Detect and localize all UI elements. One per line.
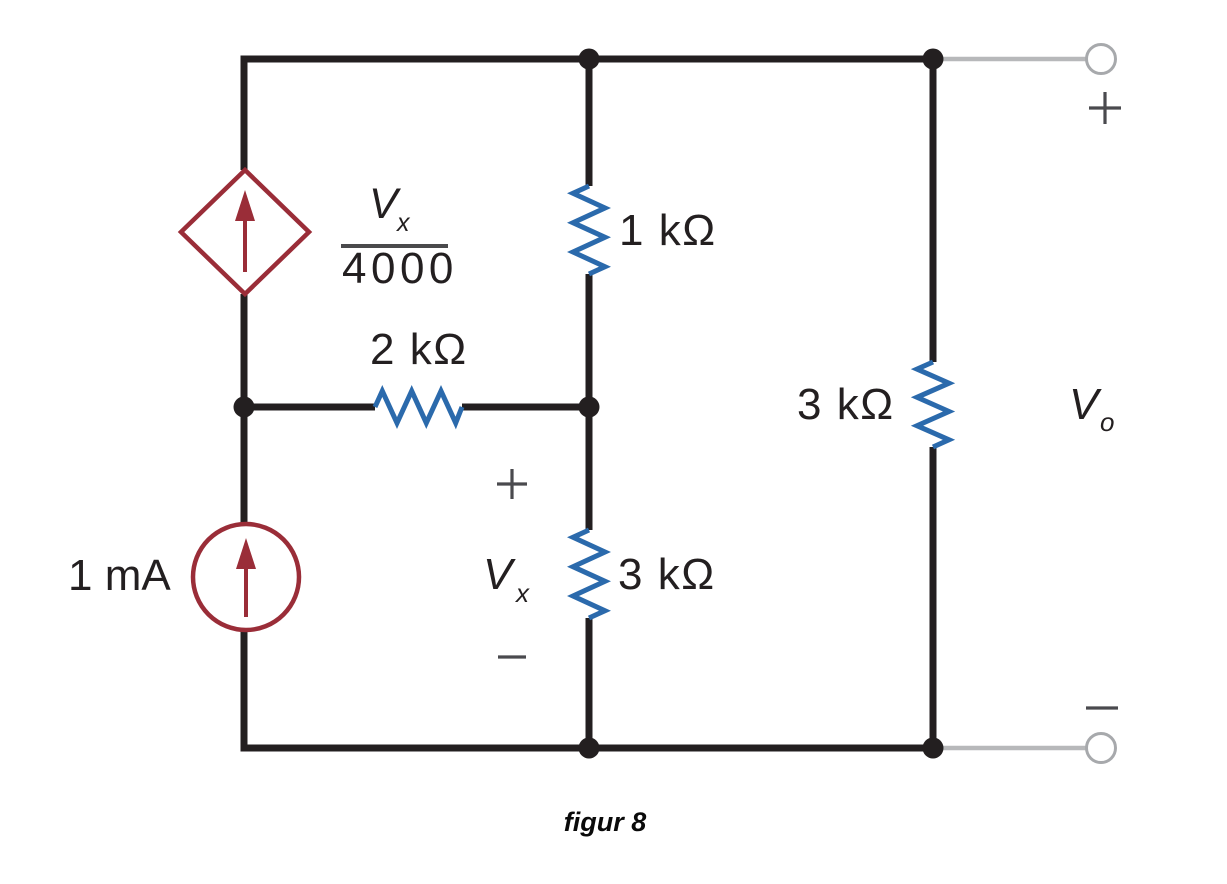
plus sign of Vx polarity xyxy=(497,469,527,499)
resistor 3 kOhm middle zigzag xyxy=(573,530,605,618)
minus sign of output polarity xyxy=(1086,706,1118,709)
resistor 2 kOhm horizontal zigzag xyxy=(375,391,462,423)
junction left middle node xyxy=(234,397,255,418)
svg-text:V: V xyxy=(483,550,516,599)
svg-text:x: x xyxy=(396,209,411,237)
dependent current source Vx/4000 diamond xyxy=(181,170,309,294)
svg-text:2 kΩ: 2 kΩ xyxy=(370,325,468,374)
wire gray lead to bottom output terminal xyxy=(937,746,1086,751)
wire gray lead to top output terminal xyxy=(937,57,1086,62)
independent current source 1 mA circle xyxy=(193,524,299,630)
wire right branch upper segment xyxy=(930,56,937,363)
wire middle horizontal left of 2k resistor xyxy=(244,404,375,411)
svg-text:4000: 4000 xyxy=(342,244,458,293)
wire middle branch center segment xyxy=(586,274,593,530)
junction bottom middle node xyxy=(579,738,600,759)
wire middle horizontal right of 2k resistor xyxy=(462,404,589,411)
wire right branch lower segment xyxy=(930,447,937,752)
svg-text:o: o xyxy=(1100,407,1114,437)
terminal top output xyxy=(1087,45,1116,74)
junction top middle node xyxy=(579,49,600,70)
svg-text:V: V xyxy=(1069,380,1102,429)
junction bottom right node xyxy=(923,738,944,759)
wire middle branch upper segment xyxy=(586,56,593,187)
junction top right node xyxy=(923,49,944,70)
resistor 1 kOhm zigzag xyxy=(573,186,605,274)
wire bottom bus xyxy=(241,745,937,752)
svg-text:x: x xyxy=(514,578,530,608)
wire left branch middle segment xyxy=(241,294,248,524)
svg-text:1 mA: 1 mA xyxy=(68,551,171,600)
svg-text:1 kΩ: 1 kΩ xyxy=(619,206,717,255)
fraction bar of Vx/4000 xyxy=(341,244,448,248)
resistor 3 kOhm right zigzag xyxy=(917,362,949,447)
svg-text:3 kΩ: 3 kΩ xyxy=(797,380,895,429)
minus sign of Vx polarity xyxy=(498,655,526,658)
wire left branch upper segment xyxy=(241,56,248,171)
svg-text:figur 8: figur 8 xyxy=(564,807,647,837)
plus sign of output polarity xyxy=(1089,92,1121,124)
wire top bus xyxy=(241,56,937,63)
wire middle branch lower segment xyxy=(586,618,593,752)
wire left branch lower segment xyxy=(241,630,248,752)
terminal bottom output xyxy=(1087,734,1116,763)
junction center node xyxy=(579,397,600,418)
svg-text:3 kΩ: 3 kΩ xyxy=(618,550,716,599)
